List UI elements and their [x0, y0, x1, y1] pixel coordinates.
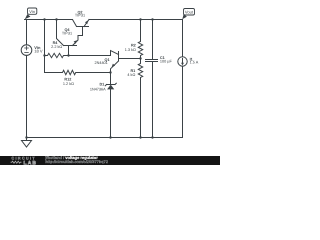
svg-text:LAB: LAB: [24, 160, 37, 165]
svg-text:Vout: Vout: [185, 10, 194, 15]
svg-text:http://circuitlab.com/c/25f377: http://circuitlab.com/c/25f377bq72: [45, 159, 109, 164]
svg-text:1.2 kΩ: 1.2 kΩ: [63, 82, 74, 86]
svg-text:Vin: Vin: [29, 9, 35, 14]
svg-text:1.3 kΩ: 1.3 kΩ: [125, 48, 136, 52]
svg-text:D1: D1: [99, 83, 104, 87]
svg-text:100 µF: 100 µF: [160, 60, 173, 64]
svg-text:TIP31: TIP31: [62, 32, 72, 36]
svg-text:R12: R12: [64, 77, 71, 81]
svg-text:18 V: 18 V: [34, 49, 43, 54]
svg-text:TIP31: TIP31: [75, 14, 85, 18]
svg-text:2N4401: 2N4401: [94, 61, 107, 65]
svg-text:4 kΩ: 4 kΩ: [127, 73, 135, 77]
svg-text:1N4736A: 1N4736A: [90, 87, 106, 91]
svg-text:1.5 A: 1.5 A: [190, 61, 199, 65]
svg-text:2.2 kΩ: 2.2 kΩ: [51, 45, 62, 49]
